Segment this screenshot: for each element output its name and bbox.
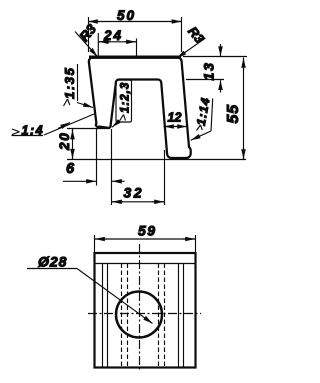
plan view right solid edge lines: [179, 264, 184, 367]
svg-text:59: 59: [138, 223, 157, 239]
dimension 59: extension lines: [95, 235, 196, 254]
diameter label: leader line with arrow: [77, 269, 153, 324]
taper label 1:14: leader with arrow: [191, 131, 211, 140]
part profile outline (top view): [89, 57, 191, 158]
svg-text:32: 32: [124, 185, 145, 201]
svg-text:1:35: 1:35: [62, 67, 77, 99]
svg-text:20: 20: [57, 131, 72, 151]
dimension 59: dimension line with arrows: [95, 238, 196, 240]
dimension 32: dimension line with arrows: [112, 201, 165, 203]
taper label 1:35: leader with arrow: [77, 103, 93, 108]
dimension 20: dimension line with arrows: [72, 129, 74, 160]
radius label R3 left: leader: [75, 32, 98, 57]
hole circle: [116, 292, 162, 338]
plan view hidden lines left (dashed): [122, 264, 128, 367]
plan view left solid edge lines: [103, 264, 108, 367]
vertical centerline (dash-dot): [139, 244, 141, 372]
dimension 13: extension lines: [183, 57, 247, 80]
svg-text:1:4: 1:4: [22, 124, 45, 138]
dimension 24: dimension line with arrows: [98, 41, 136, 43]
diameter label: leader shelf: [27, 268, 77, 270]
dimension 55: dimension line with arrows: [243, 58, 245, 160]
svg-text:24: 24: [103, 28, 123, 43]
dimension 50: extension lines: [89, 17, 182, 52]
dimension 6: outside arrows: [63, 180, 96, 182]
taper label 1:2,3: frame box: [116, 80, 132, 122]
slope label 1:4: slope reference line with arrow: [44, 114, 94, 135]
svg-text:13: 13: [201, 61, 217, 80]
svg-text:1:14: 1:14: [194, 96, 213, 127]
radius label R3 right: leader: [177, 38, 206, 58]
dimension 24: extension line: [98, 33, 136, 58]
dimension 12: dimension line with arrows: [164, 126, 188, 128]
dimension 32: extension line right: [164, 150, 166, 205]
svg-text:R3: R3: [77, 21, 100, 44]
svg-text:55: 55: [225, 104, 242, 124]
taper label 1:35: slope line: [77, 64, 79, 101]
svg-text:1:2,3: 1:2,3: [120, 82, 132, 113]
taper label 1:2,3: taper symbol: [120, 115, 126, 122]
slope label 1:4: symbol and underline: [12, 129, 44, 136]
taper label 1:14: taper symbol: [197, 125, 203, 131]
taper label 1:14: shelf line: [211, 99, 213, 132]
taper label 1:35: taper symbol: [64, 99, 70, 106]
wire: top surface thick line: [89, 56, 181, 59]
plan view rectangle: [95, 253, 196, 368]
taper label 1:2,3: leader with arrow: [112, 123, 118, 128]
svg-text:Ø28: Ø28: [38, 254, 67, 270]
plan view hidden lines right (dashed): [159, 264, 165, 367]
dimension 50: dimension line with arrows: [88, 21, 182, 23]
horizontal centerline (dash-dot): [88, 313, 201, 315]
svg-text:6: 6: [66, 161, 75, 177]
plan view top step line: [95, 263, 196, 265]
dimension 13: arrows outside: [220, 44, 222, 56]
svg-text:12: 12: [168, 111, 182, 125]
svg-text:50: 50: [117, 8, 136, 23]
dimension 20: extension lines: [67, 129, 246, 160]
dimension 6: extension lines: [97, 129, 112, 205]
svg-text:R3: R3: [185, 24, 208, 47]
